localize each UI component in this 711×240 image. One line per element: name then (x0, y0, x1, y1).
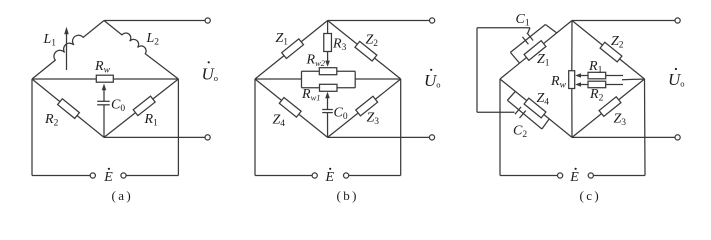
wire: (c) R1 right lead (606, 75, 623, 77)
impedance Z2 (b) (355, 41, 377, 61)
wire: (c) far-left vertical connector (476, 28, 478, 113)
wire: (b) right vertex drop (400, 79, 402, 176)
svg-text:E: E (569, 170, 579, 185)
wire: (a) right vertex drop (177, 79, 179, 176)
wire: (b) bridge edge left-to-bottom (255, 79, 328, 137)
terminal: (b) top output (430, 18, 435, 23)
potentiometer Rw (c) (569, 71, 575, 89)
svg-text:Z4: Z4 (273, 113, 286, 130)
svg-text:Z2: Z2 (366, 33, 379, 50)
wire: (a) bridge edge top-to-right with inductor humps (104, 21, 178, 80)
impedance Z3 (c) (599, 97, 621, 117)
terminal: (c) source right (588, 173, 593, 178)
wire: (a) horizontal bridge diagonal left-to-right (32, 78, 178, 80)
svg-text:Z3: Z3 (367, 111, 380, 128)
resistor R1 (a) (133, 96, 155, 115)
wiper arrow R2 to Rw (c) (575, 82, 588, 87)
svg-text:Rw: Rw (94, 59, 111, 76)
wiper arrow R1 to Rw (c) (575, 73, 588, 78)
terminal: (c) source left (558, 173, 563, 178)
terminal: (a) mid output (205, 135, 210, 140)
wire: (a) bottom vertex to output terminal (104, 136, 205, 138)
impedance Z2 (c) (600, 42, 622, 62)
svg-text:Z4: Z4 (537, 91, 550, 108)
terminal: (a) source right (121, 173, 126, 178)
svg-text:C2: C2 (513, 124, 527, 141)
wire: (b) left vertex drop (254, 79, 256, 176)
potentiometer Rw2 (b) (319, 68, 337, 75)
wire: (c) C2 jog at left vertex side (507, 91, 515, 100)
wire: (a) center branch bottom vertex up to capacitor (103, 105, 105, 137)
wire: (b) left vertex stub to potentiometer box (255, 78, 302, 80)
svg-text:Uo: Uo (668, 70, 685, 89)
potentiometer Rw1 (b) (320, 84, 338, 91)
inductor L1 variable arrow (64, 27, 69, 70)
wire: (c) center line top vertex to Rw (571, 21, 573, 71)
impedance Z1 (b) (282, 39, 304, 59)
svg-text:E: E (325, 170, 335, 185)
capacitor C1 (c) (522, 33, 533, 44)
wire: (c) bottom rail right (593, 175, 645, 177)
wire: (c) right vertex drop (644, 79, 647, 176)
potentiometer Rw (a) (96, 75, 113, 82)
wire: (c) C1 top horizontal connector (477, 27, 530, 29)
dot over E (a) (108, 168, 110, 170)
svg-text:(b): (b) (337, 188, 359, 203)
dot over E (c) (575, 168, 577, 170)
wire: (a) left vertex drop (31, 79, 33, 176)
svg-text:(c): (c) (580, 188, 602, 203)
svg-text:Rw: Rw (550, 74, 567, 91)
wire: (b) bottom rail right (349, 175, 401, 177)
svg-text:E: E (103, 170, 113, 185)
wire: (b) bridge edge top-to-left (255, 21, 328, 80)
capacitor C2 (c) (515, 107, 526, 118)
dot over Uo (a) (208, 61, 210, 63)
capacitor C0 (a) (97, 101, 110, 105)
resistor R3 (b) (324, 34, 332, 52)
wire: (a) bridge edge bottom-to-right (104, 79, 178, 137)
svg-text:Uo: Uo (202, 65, 219, 84)
wire: (b) top vertex down to R3 (327, 21, 329, 34)
wire: (c) bridge edge top-to-right (572, 21, 645, 80)
impedance Z1 (c) (524, 41, 546, 61)
wire: (c) C2 bottom horizontal connector (477, 111, 515, 113)
svg-text:Rw2: Rw2 (306, 53, 326, 69)
wire: (c) C2 branch (507, 100, 542, 129)
wire: (c) R2 right lead (606, 84, 623, 86)
impedance Z4 (b) (279, 97, 301, 117)
wire: (c) top vertex to output terminal (572, 20, 675, 22)
svg-text:Rw1: Rw1 (301, 87, 320, 103)
svg-text:C0: C0 (334, 106, 348, 123)
svg-text:R2: R2 (589, 87, 604, 104)
resistor R2 (c) (588, 81, 606, 88)
terminal: (a) top output (205, 18, 210, 23)
wire: (c) C1 jog at left vertex side (510, 52, 519, 63)
wire: (a) bottom rail right (126, 175, 178, 177)
resistor R2 (a) (58, 99, 80, 119)
wire: (c) bridge edge top-to-left (500, 21, 572, 80)
wiper arrow to Rw (a) (102, 84, 107, 102)
svg-text:C0: C0 (111, 98, 125, 115)
terminal: (b) source right (344, 173, 349, 178)
wire: (a) bridge edge left-to-top with inductor humps (32, 21, 104, 80)
wire: (b) bridge edge bottom-to-right (328, 79, 401, 137)
wire: (c) center line Rw to bottom vertex (571, 89, 573, 138)
wiper arrow from R3 to Rw2 (b) (325, 52, 330, 67)
wire: (b) potentiometer box outline (302, 71, 356, 88)
impedance Z3 (b) (356, 96, 378, 116)
svg-text:R1: R1 (588, 59, 603, 76)
svg-text:R1: R1 (144, 112, 159, 129)
terminal: (c) mid output (675, 135, 680, 140)
svg-text:Z1: Z1 (276, 31, 289, 48)
capacitor C0 (b) (322, 110, 333, 113)
wire: (c) left vertex drop (499, 79, 501, 176)
terminal: (c) top output (675, 18, 680, 23)
wiper arrow from C0 to Rw1 (b) (325, 92, 330, 110)
wire: (a) top vertex to output terminal (104, 20, 205, 22)
svg-text:R2: R2 (44, 112, 59, 129)
svg-text:C1: C1 (516, 12, 530, 29)
resistor R1 (c) (588, 72, 606, 79)
terminal: (a) source left (90, 173, 95, 178)
dot over Uo (c) (675, 68, 677, 70)
svg-text:(a): (a) (112, 188, 134, 203)
svg-text:Z3: Z3 (614, 112, 627, 129)
wire: (b) bottom vertex to output terminal (328, 136, 430, 138)
svg-text:L2: L2 (146, 31, 160, 48)
wire: (c) C2 jog at bottom vertex side (542, 119, 549, 129)
wire: (c) C1 connector tick (528, 28, 530, 34)
wire: (c) bottom rail left (500, 175, 558, 177)
wire: (b) box right stub to right vertex (355, 78, 401, 80)
terminal: (b) source left (312, 173, 317, 178)
wire: (c) bridge edge bottom-to-right (572, 79, 645, 137)
wire: (c) middle lead to right vertex (622, 78, 645, 81)
svg-text:Z1: Z1 (537, 52, 550, 69)
svg-text:L1: L1 (43, 32, 57, 49)
wire: (c) C1 jog at top vertex (545, 25, 556, 33)
wire: (a) bridge edge left-to-bottom (32, 79, 104, 137)
svg-text:Z2: Z2 (611, 34, 624, 51)
wire: (c) bridge edge left-to-bottom (500, 79, 572, 137)
impedance Z4 (c) (524, 98, 546, 118)
wire: (b) bridge edge top-to-right (328, 21, 401, 80)
wire: (b) bottom rail left (255, 175, 312, 177)
svg-text:Uo: Uo (424, 71, 441, 90)
dot over E (b) (329, 168, 331, 170)
wire: (a) bottom rail left (32, 175, 90, 177)
wire: (b) top vertex to output terminal (328, 20, 430, 22)
terminal: (b) mid output (429, 135, 434, 140)
svg-text:R3: R3 (332, 37, 347, 54)
wire: (c) C1 branch (510, 25, 545, 53)
dot over Uo (b) (430, 69, 432, 71)
wire: (b) capacitor to bottom vertex (327, 113, 329, 138)
wire: (c) bottom vertex to output terminal (572, 136, 675, 138)
